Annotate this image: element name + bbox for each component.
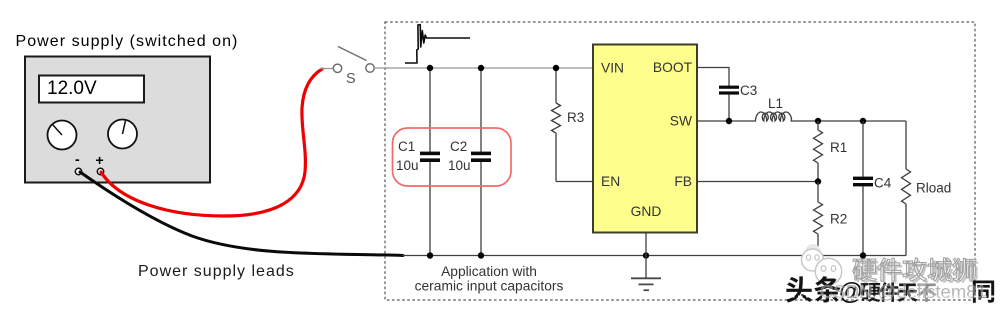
svg-text:R1: R1 xyxy=(830,140,847,155)
switch S xyxy=(333,47,374,88)
wire: R3 to EN xyxy=(556,181,593,183)
node: ground rail / R2 xyxy=(815,252,821,258)
positive terminal xyxy=(96,152,104,175)
svg-text:C4: C4 xyxy=(874,176,892,191)
red highlight around input capacitors xyxy=(393,128,512,186)
capacitor C3 xyxy=(719,83,757,121)
resistor R3 xyxy=(552,68,585,182)
svg-text:10u: 10u xyxy=(448,158,471,173)
svg-text:Power supply (switched on): Power supply (switched on) xyxy=(16,33,239,50)
node: VIN rail / C2 xyxy=(478,65,484,71)
svg-text:R2: R2 xyxy=(830,212,847,227)
svg-text:FB: FB xyxy=(674,174,692,189)
wire: BOOT to C3 xyxy=(697,68,729,87)
svg-text:Rload: Rload xyxy=(916,181,951,196)
black power lead (-) xyxy=(80,172,403,256)
node: VIN rail / R3 xyxy=(553,65,559,71)
watermark overlay: white dashed strike xyxy=(782,296,1000,298)
wire: ground rail xyxy=(402,255,906,257)
wire: FB xyxy=(697,181,818,183)
inductor L1 xyxy=(756,96,792,121)
watermark text: gray embossed 硬件攻城狮 xyxy=(853,258,978,284)
svg-text:SW: SW xyxy=(670,114,692,129)
svg-text:BOOT: BOOT xyxy=(653,60,693,75)
regulator IC U1 xyxy=(593,45,697,233)
red power lead (+) xyxy=(101,69,322,216)
wire: input rail from switch to VIN xyxy=(374,67,593,69)
resistor Rload xyxy=(902,121,952,256)
capacitor C2 xyxy=(448,68,491,256)
watermark text: black 头条@硬件天不同 xyxy=(786,276,994,305)
node: ground rail / C2 xyxy=(478,252,484,258)
capacitor C4 xyxy=(853,121,892,256)
svg-text:-: - xyxy=(75,151,80,167)
ground symbol xyxy=(631,278,661,290)
negative terminal xyxy=(75,151,82,175)
svg-text:VIN: VIN xyxy=(601,61,624,76)
svg-text:ceramic input capacitors: ceramic input capacitors xyxy=(415,279,564,294)
knob left xyxy=(48,121,77,150)
wire: GND pin down xyxy=(645,233,647,278)
svg-text:S: S xyxy=(346,71,356,87)
node: SW rail / R1 xyxy=(815,118,821,124)
svg-text:Application with: Application with xyxy=(441,264,537,279)
node: SW rail / C4 xyxy=(860,118,866,124)
svg-text:C2: C2 xyxy=(450,139,467,154)
label: Application with ceramic input capacitors xyxy=(415,264,564,294)
svg-text:R3: R3 xyxy=(567,110,584,125)
svg-text:CSDN @defistem81: CSDN @defistem81 xyxy=(820,281,987,302)
wire: red lead to switch xyxy=(320,68,333,70)
voltage display 12.0V xyxy=(39,76,144,103)
knob right xyxy=(108,120,137,149)
node: FB / divider xyxy=(815,178,821,184)
svg-text:+: + xyxy=(96,152,104,168)
svg-text:C1: C1 xyxy=(398,139,415,154)
watermark chat icon xyxy=(802,244,842,285)
dashed application boundary xyxy=(385,22,975,300)
svg-text:Power supply leads: Power supply leads xyxy=(138,263,295,280)
node: ground rail / C4 xyxy=(860,252,866,258)
svg-text:EN: EN xyxy=(601,174,620,189)
svg-text:GND: GND xyxy=(631,204,662,219)
resistor R2 xyxy=(814,182,848,256)
svg-text:C3: C3 xyxy=(740,83,757,98)
resistor R1 xyxy=(814,121,848,182)
wire: L1 to output xyxy=(791,120,907,122)
wire: SW rail xyxy=(697,120,756,122)
node: ground rail / C1 xyxy=(427,252,433,258)
node: SW / C3 xyxy=(726,118,732,124)
svg-text:10u: 10u xyxy=(396,158,419,173)
transient spike waveform xyxy=(405,25,470,64)
svg-text:L1: L1 xyxy=(768,96,783,111)
svg-text:12.0V: 12.0V xyxy=(47,78,97,99)
power supply box xyxy=(25,57,210,183)
node: VIN rail / C1 xyxy=(427,65,433,71)
capacitor C1 xyxy=(396,68,440,256)
node: ground rail / GND pin xyxy=(643,252,649,258)
